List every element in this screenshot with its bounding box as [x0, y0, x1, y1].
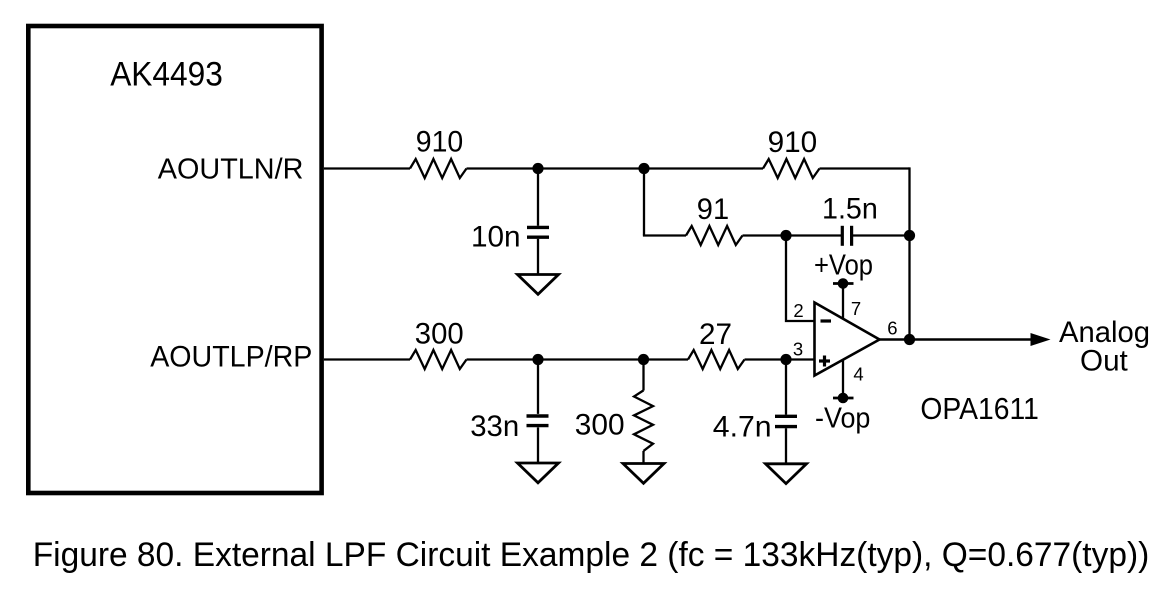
- supply -Vop terminal dot and tick: [833, 393, 854, 404]
- wire pin 4: [842, 360, 844, 398]
- wire output pin 6: [880, 338, 1033, 341]
- node B junction dot: [638, 163, 649, 174]
- svg-text:-Vop: -Vop: [815, 403, 870, 435]
- wire AOUTLN/R to R1: [324, 167, 410, 169]
- wire pin 7: [842, 284, 844, 319]
- svg-text:Out: Out: [1080, 345, 1128, 378]
- label Analog Out: [1059, 316, 1150, 377]
- svg-text:27: 27: [699, 318, 732, 351]
- svg-text:AK4493: AK4493: [110, 55, 223, 93]
- wire R5 to non-inverting input: [745, 358, 815, 360]
- capacitor C2 1.5n plates: [842, 226, 851, 246]
- svg-text:4.7n: 4.7n: [713, 411, 772, 444]
- svg-text:7: 7: [851, 298, 861, 319]
- node E junction dot: [532, 354, 543, 365]
- svg-text:910: 910: [768, 126, 818, 159]
- supply +Vop terminal dot and tick: [833, 278, 854, 289]
- svg-text:6: 6: [887, 318, 897, 339]
- capacitor C3 33n plates: [527, 416, 549, 426]
- arrowhead analog out: [1031, 333, 1051, 346]
- wire mid row to R3: [643, 234, 686, 236]
- svg-text:33n: 33n: [470, 410, 519, 443]
- node C junction dot: [780, 230, 791, 241]
- svg-text:AOUTLP/RP: AOUTLP/RP: [150, 341, 312, 374]
- op-amp U1 triangle: [815, 303, 880, 376]
- wire R2 to right corner: [820, 167, 910, 169]
- wire C2 to node D: [853, 234, 910, 236]
- svg-text:2: 2: [793, 300, 803, 321]
- node F junction dot: [638, 354, 649, 365]
- IC box AK4493: [28, 26, 321, 493]
- resistor R6 300 vertical: [634, 390, 653, 451]
- svg-text:3: 3: [793, 339, 803, 360]
- wire node C down to inverting input: [786, 240, 815, 321]
- resistor R3 91: [686, 226, 743, 245]
- ground under R6: [623, 464, 664, 484]
- capacitor C4 lead lower: [785, 428, 787, 464]
- op-amp plus sign: [819, 356, 830, 367]
- svg-text:300: 300: [415, 317, 464, 350]
- capacitor C1 lead lower: [537, 239, 539, 275]
- capacitor C4 4.7n lead upper: [785, 360, 787, 415]
- wire AOUTLP/RP to R4: [324, 358, 410, 360]
- resistor R6 300 lead upper: [642, 360, 644, 391]
- wire node B down to mid row: [643, 169, 645, 236]
- svg-text:300: 300: [575, 408, 625, 441]
- node H output junction dot: [904, 334, 915, 345]
- resistor R5 27: [688, 350, 745, 369]
- capacitor C3 33n lead upper: [537, 360, 539, 414]
- wire node B to R2: [644, 167, 763, 169]
- wire R3 to node C: [743, 234, 842, 236]
- svg-text:+Vop: +Vop: [814, 250, 873, 282]
- svg-text:91: 91: [697, 193, 729, 226]
- ground under C3: [518, 463, 559, 483]
- resistor R2 910: [763, 159, 820, 178]
- capacitor C1 10n lead upper: [537, 169, 539, 226]
- capacitor C4 4.7n plates: [775, 416, 797, 426]
- resistor R6 lead lower: [642, 451, 644, 464]
- svg-text:4: 4: [853, 364, 863, 385]
- svg-text:1.5n: 1.5n: [822, 193, 878, 226]
- wire R4 to R5: [467, 358, 689, 360]
- op-amp minus sign: [821, 319, 832, 322]
- ground under C1: [518, 275, 559, 295]
- svg-text:910: 910: [416, 125, 463, 158]
- svg-text:Figure 80. External LPF Circui: Figure 80. External LPF Circuit Example …: [33, 536, 1150, 574]
- ground under C4: [766, 464, 807, 484]
- wire R1 to node A: [467, 167, 645, 169]
- capacitor C3 lead lower: [537, 427, 539, 463]
- svg-text:OPA1611: OPA1611: [920, 392, 1038, 426]
- node G junction dot: [780, 354, 791, 365]
- svg-text:AOUTLN/R: AOUTLN/R: [158, 153, 304, 185]
- wire right vertical feedback: [908, 167, 910, 339]
- node D junction dot: [904, 230, 915, 241]
- svg-text:10n: 10n: [471, 221, 521, 254]
- capacitor C1 10n plates: [527, 227, 549, 237]
- resistor R1 910: [410, 159, 467, 178]
- resistor R4 300: [410, 350, 467, 369]
- node A junction dot: [532, 163, 543, 174]
